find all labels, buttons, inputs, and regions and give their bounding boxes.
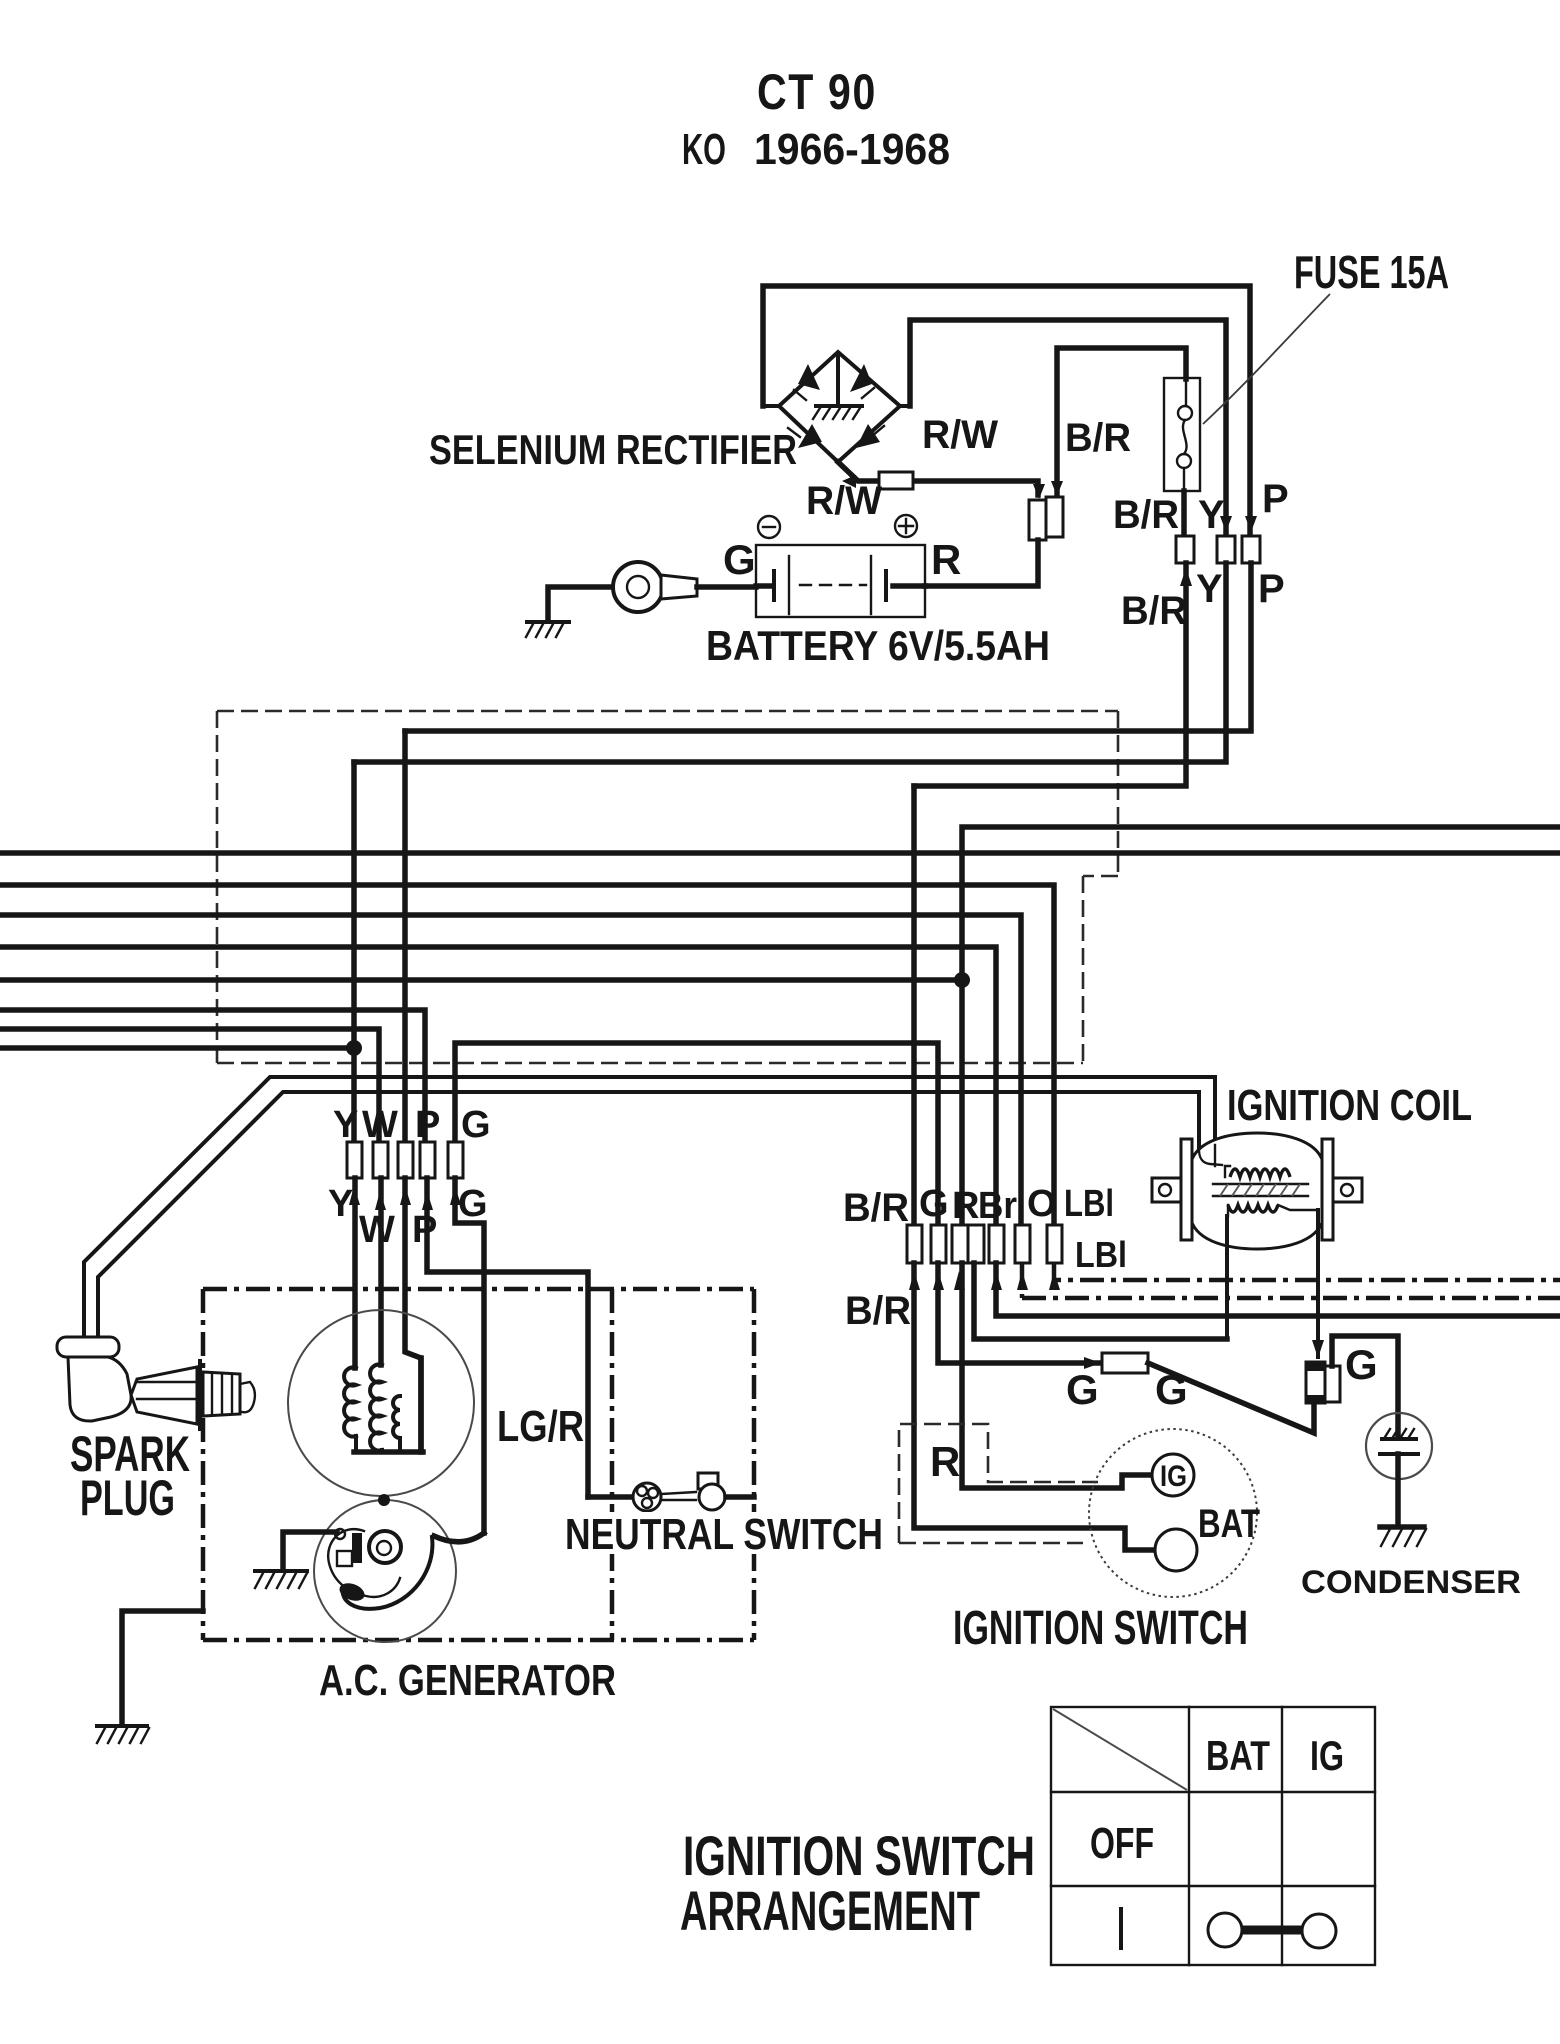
svg-text:B/R: B/R bbox=[843, 1186, 909, 1230]
svg-text:G: G bbox=[461, 1104, 491, 1146]
svg-text:G: G bbox=[458, 1183, 488, 1225]
svg-text:ARRANGEMENT: ARRANGEMENT bbox=[680, 1879, 980, 1942]
svg-text:G: G bbox=[1155, 1366, 1188, 1413]
svg-text:OFF: OFF bbox=[1090, 1819, 1154, 1868]
svg-text:BAT: BAT bbox=[1206, 1732, 1270, 1779]
svg-text:R: R bbox=[930, 1438, 960, 1485]
svg-text:B/R: B/R bbox=[1113, 493, 1179, 537]
svg-text:Br: Br bbox=[978, 1185, 1017, 1227]
svg-text:CONDENSER: CONDENSER bbox=[1301, 1564, 1521, 1600]
svg-text:IG: IG bbox=[1310, 1732, 1344, 1779]
svg-text:G: G bbox=[919, 1183, 949, 1225]
svg-text:KO: KO bbox=[682, 125, 726, 174]
svg-text:BAT: BAT bbox=[1198, 1502, 1260, 1546]
svg-text:W: W bbox=[362, 1104, 398, 1146]
svg-text:Y: Y bbox=[1196, 567, 1223, 611]
svg-text:G: G bbox=[1066, 1366, 1099, 1413]
svg-text:IGNITION COIL: IGNITION COIL bbox=[1227, 1081, 1472, 1130]
svg-text:PLUG: PLUG bbox=[80, 1470, 175, 1526]
svg-text:Y: Y bbox=[333, 1104, 358, 1146]
svg-text:R/W: R/W bbox=[922, 413, 998, 457]
svg-text:1966-1968: 1966-1968 bbox=[754, 125, 950, 174]
svg-text:NEUTRAL SWITCH: NEUTRAL SWITCH bbox=[565, 1510, 883, 1559]
svg-text:Y: Y bbox=[328, 1183, 353, 1225]
svg-text:O: O bbox=[1027, 1183, 1057, 1225]
svg-text:P: P bbox=[1262, 477, 1289, 521]
svg-text:Y: Y bbox=[1198, 493, 1225, 537]
svg-text:IG: IG bbox=[1160, 1460, 1187, 1493]
svg-text:B/R: B/R bbox=[1121, 589, 1187, 633]
svg-text:B/R: B/R bbox=[845, 1289, 911, 1333]
svg-text:SELENIUM RECTIFIER: SELENIUM RECTIFIER bbox=[429, 426, 797, 473]
svg-text:IGNITION SWITCH: IGNITION SWITCH bbox=[683, 1824, 1035, 1887]
svg-text:P: P bbox=[1258, 567, 1285, 611]
svg-text:B/R: B/R bbox=[1065, 416, 1131, 460]
svg-text:CT 90: CT 90 bbox=[757, 64, 877, 120]
svg-text:LG/R: LG/R bbox=[497, 1402, 584, 1451]
svg-text:R: R bbox=[952, 1185, 979, 1227]
svg-text:BATTERY 6V/5.5AH: BATTERY 6V/5.5AH bbox=[706, 622, 1050, 669]
svg-text:R/W: R/W bbox=[806, 479, 882, 523]
svg-text:R: R bbox=[931, 536, 961, 583]
svg-text:W: W bbox=[359, 1209, 395, 1251]
svg-text:G: G bbox=[723, 536, 756, 583]
svg-text:P: P bbox=[412, 1209, 437, 1251]
svg-text:FUSE 15A: FUSE 15A bbox=[1294, 246, 1449, 298]
svg-text:G: G bbox=[1345, 1341, 1378, 1388]
svg-text:P: P bbox=[415, 1104, 440, 1146]
svg-text:LBl: LBl bbox=[1075, 1234, 1127, 1275]
svg-text:IGNITION SWITCH: IGNITION SWITCH bbox=[953, 1602, 1248, 1655]
svg-text:A.C. GENERATOR: A.C. GENERATOR bbox=[319, 1656, 616, 1705]
svg-text:LBl: LBl bbox=[1064, 1183, 1114, 1225]
